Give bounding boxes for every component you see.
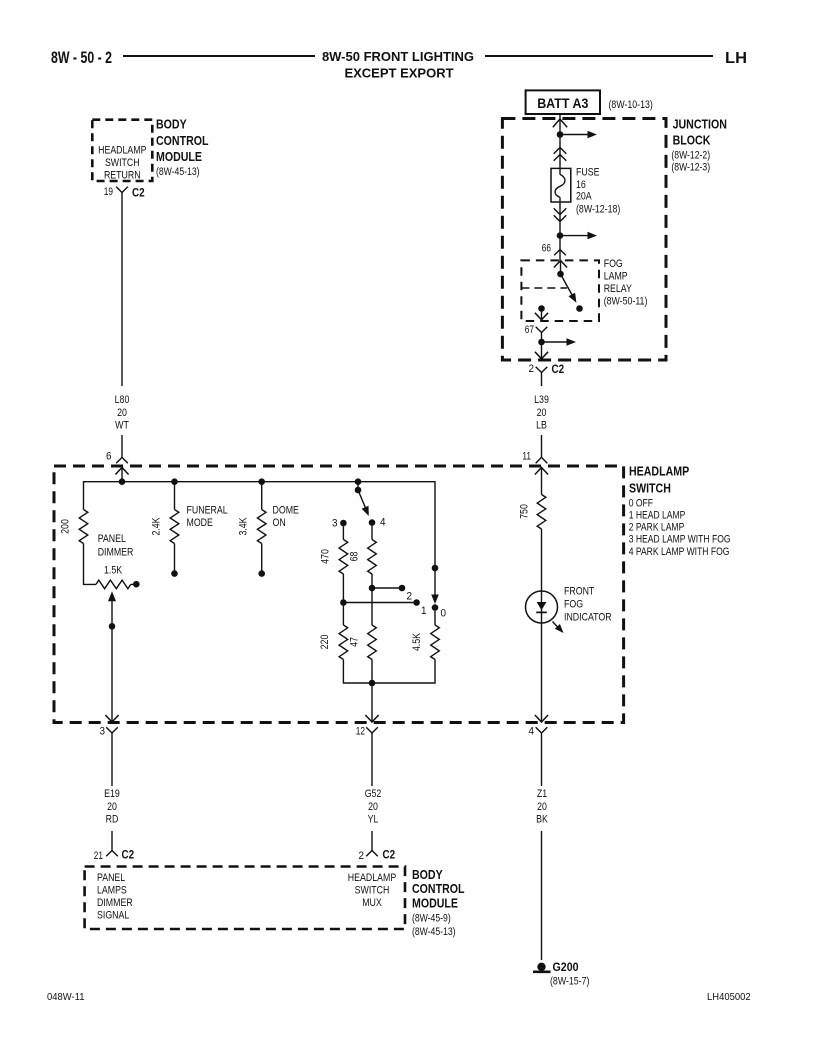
wire 1.5K end stub (131, 583, 134, 585)
svg-text:66: 66 (542, 243, 551, 255)
wire 750 to indicator (541, 529, 543, 722)
svg-text:3: 3 (100, 726, 106, 738)
relay movable contact arm (561, 274, 573, 295)
branch 0 junction node (432, 565, 439, 572)
svg-text:SWITCH: SWITCH (629, 482, 671, 496)
svg-text:3.4K: 3.4K (238, 517, 250, 536)
wire 68 down through to resistor 47 (371, 574, 373, 625)
svg-text:BODY: BODY (156, 118, 187, 132)
svg-text:HEADLAMP: HEADLAMP (348, 872, 396, 884)
svg-text:4: 4 (380, 517, 386, 529)
contact node 4 (369, 519, 376, 526)
node end 3.4K (258, 570, 265, 577)
wiper arrow of panel dimmer (108, 591, 116, 601)
inline connector double chevron above fuse (554, 148, 567, 154)
wire L39 lower (541, 435, 543, 457)
contact line to position 2 (372, 587, 402, 589)
connector chevron pin 3 (106, 727, 118, 733)
svg-text:PANEL: PANEL (97, 872, 125, 884)
svg-text:(8W-45-13): (8W-45-13) (412, 926, 456, 938)
svg-text:20: 20 (537, 801, 547, 813)
svg-text:0 OFF: 0 OFF (629, 498, 654, 510)
branch arrow right (top) (560, 134, 588, 136)
internal bus wire (84, 482, 436, 595)
connector chevron pin 12 (366, 727, 378, 733)
indicator LED triangle (537, 602, 547, 610)
wire L39 upper (541, 379, 543, 386)
svg-text:FUNERAL: FUNERAL (187, 505, 228, 517)
connector C2 symbol pin 21 (106, 851, 118, 857)
indicator LED bar (536, 611, 547, 613)
svg-text:LH: LH (725, 50, 747, 67)
fog lamp relay dashed box (521, 260, 599, 321)
svg-text:FOG: FOG (564, 599, 583, 611)
svg-text:2.4K: 2.4K (151, 517, 163, 536)
relay NO contact node (576, 305, 583, 312)
svg-text:16: 16 (576, 179, 586, 191)
collector wire bottom (343, 660, 435, 684)
svg-text:RETURN: RETURN (104, 170, 141, 182)
svg-text:20: 20 (368, 801, 378, 813)
svg-text:SWITCH: SWITCH (355, 885, 390, 897)
svg-text:67: 67 (525, 324, 534, 336)
svg-text:3: 3 (332, 518, 338, 530)
svg-text:MODULE: MODULE (156, 150, 202, 164)
wire resistor 47 to collector (371, 660, 373, 684)
wire L80 lower segment (121, 435, 123, 457)
connector chevron pin 11 (536, 457, 548, 463)
resistor 470 (339, 540, 348, 575)
svg-text:BLOCK: BLOCK (673, 134, 711, 148)
branch arrow right (middle) (560, 235, 588, 237)
contact node 2 (399, 585, 406, 592)
entry arrow at pin 11 (535, 468, 548, 475)
wire node4 to resistor 68 (371, 526, 373, 540)
svg-text:WT: WT (115, 420, 129, 432)
svg-text:INDICATOR: INDICATOR (564, 612, 612, 624)
svg-text:(8W-12-3): (8W-12-3) (671, 161, 710, 173)
svg-text:20: 20 (537, 407, 547, 419)
connector C2 symbol (BCM top) (116, 187, 128, 193)
svg-text:(8W-12-2): (8W-12-2) (671, 150, 710, 162)
contact node 3 (340, 520, 347, 527)
wire bus to resistor 2.4K (174, 482, 176, 510)
svg-text:200: 200 (60, 519, 72, 534)
fuse 16 box (551, 168, 571, 202)
svg-text:YL: YL (368, 814, 379, 826)
svg-text:750: 750 (519, 504, 531, 519)
svg-text:JUNCTION: JUNCTION (673, 118, 727, 132)
svg-text:11: 11 (522, 451, 531, 463)
contact node 1 (413, 599, 420, 606)
svg-text:C2: C2 (122, 848, 135, 862)
wire E19 lower (111, 831, 113, 851)
connector chevron pin 4 (536, 727, 548, 733)
svg-text:LAMP: LAMP (604, 271, 628, 283)
svg-text:2 PARK LAMP: 2 PARK LAMP (629, 522, 685, 534)
node end 2.4K (171, 570, 178, 577)
svg-text:RELAY: RELAY (604, 283, 633, 295)
svg-text:4 PARK LAMP WITH FOG: 4 PARK LAMP WITH FOG (629, 546, 730, 558)
ground G200 symbol (537, 963, 545, 971)
svg-text:LAMPS: LAMPS (97, 885, 127, 897)
svg-text:FOG: FOG (604, 258, 623, 270)
svg-text:G52: G52 (365, 788, 382, 800)
svg-text:2: 2 (529, 363, 535, 375)
svg-text:G200: G200 (553, 960, 579, 974)
svg-text:LB: LB (536, 420, 547, 432)
svg-text:220: 220 (319, 635, 331, 650)
svg-text:(8W-10-13): (8W-10-13) (609, 99, 653, 111)
inline connector double chevron below fuse (554, 208, 567, 214)
exit arrow pin 3 (105, 715, 118, 722)
svg-text:FUSE: FUSE (576, 166, 600, 178)
wire G52 upper (371, 740, 373, 786)
indicator actuation arrow (553, 622, 559, 629)
wire Z1 lower (541, 831, 543, 960)
svg-text:68: 68 (348, 552, 360, 562)
svg-text:E19: E19 (104, 788, 120, 800)
svg-text:C2: C2 (383, 848, 396, 862)
branch arrow right (relay out) (542, 341, 568, 343)
junction node below fuse (557, 232, 564, 239)
batt A3 feed box (526, 90, 600, 114)
svg-text:Z1: Z1 (537, 788, 547, 800)
relay output arrow down (541, 309, 543, 320)
wire relay to C2 (541, 333, 543, 359)
exit arrow pin 4 (535, 715, 548, 722)
relay common contact node (557, 271, 564, 278)
junction node pin 67 (538, 339, 545, 346)
resistor 2.4K (170, 510, 179, 544)
svg-text:2: 2 (359, 850, 365, 862)
svg-text:1.5K: 1.5K (104, 565, 123, 577)
resistor 1.5K (rheostat) (96, 580, 131, 589)
connector C2 symbol pin 2 (366, 851, 378, 857)
resistor 47 (368, 625, 377, 660)
connector chevron pin 66 (554, 250, 566, 256)
connector C2 symbol junction block (536, 367, 548, 373)
bus junction node funeral branch (171, 478, 178, 485)
body control module (bottom) dashed box (85, 867, 405, 930)
front fog indicator lamp circle (526, 591, 558, 623)
svg-text:SWITCH: SWITCH (105, 157, 140, 169)
svg-text:MUX: MUX (362, 897, 382, 909)
svg-text:PANEL: PANEL (98, 533, 126, 545)
bus junction node rotary switch (355, 478, 362, 485)
svg-text:048W-11: 048W-11 (47, 991, 85, 1003)
wire batt into junction block (559, 114, 561, 175)
svg-text:EXCEPT EXPORT: EXCEPT EXPORT (344, 66, 453, 81)
wire resistor 200 to 1.5K (84, 544, 97, 585)
svg-text:4.5K: 4.5K (411, 632, 423, 651)
svg-text:(8W-15-7): (8W-15-7) (550, 976, 589, 988)
bus junction node at pin 6 entry (119, 478, 126, 485)
contact line to position 1 (343, 602, 416, 604)
resistor 68 (368, 540, 377, 575)
svg-text:(8W-45-13): (8W-45-13) (156, 166, 200, 178)
bus junction node dome branch (258, 478, 265, 485)
fuse element curve (555, 174, 565, 197)
wire 470 to junction 1 (342, 574, 344, 625)
wire collector to pin 12 (371, 683, 373, 722)
svg-text:47: 47 (348, 637, 360, 647)
svg-text:C2: C2 (552, 362, 565, 376)
svg-text:CONTROL: CONTROL (412, 882, 465, 896)
resistor 750 (537, 495, 546, 530)
svg-text:4: 4 (529, 726, 535, 738)
wire 3.4K lower (261, 544, 263, 571)
svg-text:BK: BK (536, 814, 548, 826)
svg-text:MODE: MODE (187, 517, 213, 529)
relay coil dashed actuator line (521, 287, 567, 289)
svg-text:(8W-45-9): (8W-45-9) (412, 913, 451, 925)
svg-text:DOME: DOME (273, 505, 299, 517)
svg-text:ON: ON (273, 517, 286, 529)
header rule left segment (123, 55, 315, 57)
wire node0 to resistor 4.5K (434, 611, 436, 625)
resistor 200 (79, 510, 88, 544)
resistor 3.4K (257, 510, 266, 544)
svg-text:FRONT: FRONT (564, 586, 595, 598)
wire Z1 upper (541, 740, 543, 786)
junction node below batt (557, 131, 564, 138)
junction node line1 left (340, 599, 347, 606)
connector chevron pin 6 (116, 457, 128, 463)
body control module (top) dashed box (92, 120, 152, 181)
wire fuse to relay (559, 197, 561, 260)
arrow to contact 0 (431, 595, 439, 605)
wire E19 upper (111, 740, 113, 786)
svg-text:RD: RD (106, 814, 119, 826)
junction node line2 left (369, 585, 376, 592)
svg-text:(8W-50-11): (8W-50-11) (604, 296, 648, 308)
exit arrow pin 12 (365, 715, 378, 722)
exit arrow junction block bottom (535, 352, 548, 359)
relay output contact node (538, 305, 545, 312)
svg-text:HEADLAMP: HEADLAMP (98, 145, 146, 157)
svg-text:21: 21 (94, 850, 103, 862)
wire L80 upper segment (121, 200, 123, 386)
svg-text:HEADLAMP: HEADLAMP (629, 465, 689, 479)
svg-text:C2: C2 (132, 186, 145, 200)
collector junction node (369, 680, 376, 687)
svg-text:12: 12 (356, 726, 365, 738)
header rule right segment (485, 55, 713, 57)
resistor 220 (339, 625, 348, 660)
rotary wiper pivot node (355, 487, 362, 494)
wire node3 to resistor 470 (342, 526, 344, 539)
svg-text:1: 1 (421, 605, 427, 617)
svg-text:(8W-12-18): (8W-12-18) (576, 204, 620, 216)
junction block dashed box (502, 119, 666, 361)
svg-text:0: 0 (441, 608, 447, 620)
svg-text:20: 20 (117, 407, 127, 419)
node end of 1.5K (133, 581, 140, 588)
svg-text:LH405002: LH405002 (707, 991, 751, 1003)
svg-text:SIGNAL: SIGNAL (97, 910, 129, 922)
svg-text:470: 470 (319, 549, 331, 564)
wire G52 lower (371, 831, 373, 851)
svg-text:3 HEAD LAMP WITH FOG: 3 HEAD LAMP WITH FOG (629, 534, 731, 546)
svg-text:1 HEAD LAMP: 1 HEAD LAMP (629, 510, 686, 522)
wiper node (109, 623, 116, 630)
svg-text:19: 19 (104, 186, 113, 198)
svg-text:DIMMER: DIMMER (97, 897, 133, 909)
svg-text:20: 20 (107, 801, 117, 813)
svg-text:2: 2 (407, 591, 413, 603)
contact node 0 (432, 604, 439, 611)
svg-text:8W - 50 - 2: 8W - 50 - 2 (51, 49, 112, 67)
entry arrow at pin 6 (115, 468, 128, 475)
svg-text:L80: L80 (115, 394, 130, 406)
svg-text:BATT A3: BATT A3 (537, 95, 588, 111)
wiper stub from bus (357, 482, 359, 490)
wire 2.4K lower (174, 544, 176, 571)
rotary wiper arm with arrow (358, 490, 366, 508)
connector chevron pin 67 (536, 327, 548, 333)
wire bus to resistor 3.4K (261, 482, 263, 510)
svg-text:6: 6 (106, 451, 112, 463)
svg-text:MODULE: MODULE (412, 897, 458, 911)
svg-text:CONTROL: CONTROL (156, 134, 209, 148)
resistor 4.5K (431, 625, 440, 660)
svg-text:20A: 20A (576, 191, 592, 203)
svg-text:8W-50 FRONT LIGHTING: 8W-50 FRONT LIGHTING (322, 49, 474, 64)
relay input arrow (554, 261, 567, 268)
headlamp switch dashed box (54, 466, 624, 723)
svg-text:L39: L39 (534, 394, 549, 406)
svg-text:DIMMER: DIMMER (98, 547, 134, 559)
svg-text:BODY: BODY (412, 868, 443, 882)
